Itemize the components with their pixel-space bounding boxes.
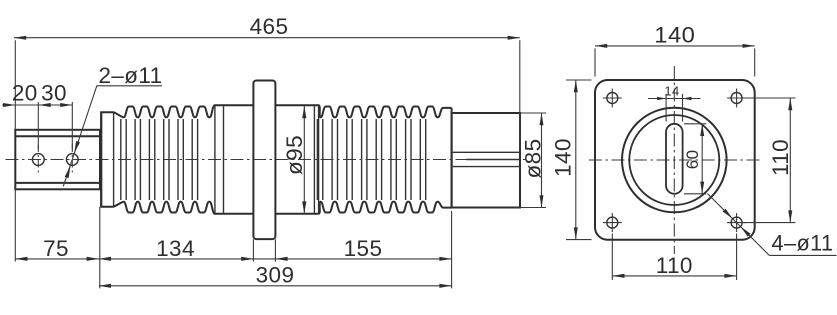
dim 110 bottom right extension [736,234,738,281]
dim 20 left outside arrow [3,103,15,107]
dimension 465 right arrow [508,36,520,40]
dim 60 top arrow [700,124,704,136]
dimension 465 line [14,37,520,39]
dim 60 top extension [684,123,706,125]
bolt hole bottom-right [731,217,742,228]
bottom dim line 75-134-155 [15,258,451,260]
dim 110 bottom left extension [611,234,613,281]
insulator right section bottom profile [319,202,452,214]
dim 110 right top arrow [788,98,792,110]
dim 155 right arrow [439,257,451,261]
o85 top extension [521,112,546,114]
bolt hole top-left centermark [603,97,622,99]
conductor rod top edge [453,151,520,153]
busbar bottom edge [15,182,100,184]
central circle outer [622,108,727,213]
hole H1 in plate [32,154,44,166]
dim 30 left arrow [39,103,51,107]
dim 155 left arrow [275,257,287,261]
dimension 465 right extension [519,40,521,150]
insulator end face [451,108,453,208]
bolt hole bottom-right centermark [727,222,746,224]
dim 60 bottom arrow [700,182,704,194]
bolt hole bottom-left centermark [603,222,622,224]
dim 134 right arrow [241,257,253,261]
dim 140 left top arrow [574,80,578,92]
dim 110 right bottom extension [743,222,796,224]
dim o85 top arrow [540,113,544,125]
svg-text:ø85: ø85 [521,139,546,179]
dim 14 left arrow [657,97,666,100]
label 4-o11 underline [769,254,836,256]
svg-text:309: 309 [256,263,295,288]
end cap cylinder [452,113,520,208]
svg-text:75: 75 [43,236,69,261]
dim o95 bottom arrow [302,201,306,213]
dim 110 right top extension [743,97,796,99]
key slot [666,124,683,194]
svg-text:ø95: ø95 [282,135,307,175]
svg-text:110: 110 [656,253,693,278]
dimension 309 line [99,285,452,287]
dimension 465 left extension [14,40,16,130]
dimension 20-30 line [2,104,72,106]
svg-text:465: 465 [250,14,289,39]
right collar bottom edge [275,213,318,215]
dim 75 left arrow [15,257,27,261]
extension flange left lower [252,239,254,261]
right collar top edge [275,104,318,106]
extension end face lower [451,211,453,289]
conductor rod bottom edge [453,166,520,168]
svg-text:110: 110 [768,139,793,176]
busbar top edge [15,135,100,137]
label 4-o11 upper arrow [723,209,733,219]
dim 134 left arrow [99,257,111,261]
dim 60 bottom extension [684,193,706,195]
flange horizontal centerline [589,159,761,161]
flange vertical centerline [673,66,675,254]
dim 75 right arrow [87,257,99,261]
svg-text:14: 14 [664,84,679,99]
extension line hole H1 [37,102,39,149]
dimension 60 line [701,124,703,194]
dim 140 top right arrow [743,44,755,48]
dim 14 right extension [682,94,684,122]
label 4-o11 lower arrow [741,227,751,237]
dim 140 top left arrow [595,44,607,48]
label 2-o11 leader [63,86,97,187]
dim 14 right arrow [683,97,692,100]
centerline of bushing axis [6,159,527,161]
left section shed silhouette lines [114,106,215,214]
bolt hole top-right centermark [727,97,746,99]
hole H2 vertical centermark [71,145,73,175]
bolt hole bottom-left [607,217,618,228]
svg-text:2–ø11: 2–ø11 [99,63,163,88]
flange plate square [595,80,755,240]
dim 110 bottom left arrow [612,274,624,278]
extension line hole H2 [71,102,73,149]
bolt hole top-left [607,93,618,104]
left collar seam line [223,106,225,213]
hole H1 vertical centermark [37,145,39,175]
extension plate right lower [99,207,101,289]
dim 309 right arrow [439,284,451,288]
svg-text:4–ø11: 4–ø11 [772,231,834,256]
extension flange right lower [274,239,276,261]
right section shed silhouette lines [317,105,425,214]
dim 140 left bottom extension [566,239,592,241]
dimension 140 top line [595,45,755,47]
dim 110 right bottom arrow [788,210,792,222]
dimension o85 line [541,113,543,208]
dimension 14 line [648,98,701,100]
dimension o95 line [303,106,305,214]
insulator left section top profile [101,105,253,207]
right collar seam line [313,106,315,213]
dim 30 right arrow [60,103,72,107]
label 2-o11 underline [97,85,163,87]
label 4-o11 leader [708,194,770,256]
o85 bottom extension [520,207,546,209]
dim 140 left top extension [566,79,592,81]
dim 140 top right extension [754,48,756,76]
bolt hole top-right [731,93,742,104]
mounting plate outline [15,130,100,190]
svg-text:30: 30 [41,81,67,106]
label 2-o11 upper arrow [74,141,80,153]
insulator left section bottom profile [101,112,253,214]
conductor rod middle line [466,159,520,161]
svg-text:20: 20 [12,81,38,106]
dimension 465 left arrow [14,36,26,40]
svg-text:60: 60 [683,150,702,170]
dim 140 left bottom arrow [574,227,578,239]
dim 309 left arrow [99,284,111,288]
dimension 140 left line [575,80,577,240]
dimension 110 bottom line [612,275,736,277]
svg-text:140: 140 [551,138,576,177]
dim o85 bottom arrow [540,195,544,207]
svg-text:155: 155 [344,236,383,261]
svg-text:140: 140 [654,23,695,48]
svg-text:134: 134 [156,236,195,261]
hole H2 in plate [66,154,78,166]
extension plate left lower [14,189,16,261]
dimension 110 right line [789,98,791,223]
central flange [253,81,275,240]
dim 14 left extension [665,94,667,122]
central circle inner [629,115,719,205]
insulator right section top profile [319,105,452,117]
dim 140 top left extension [594,48,596,76]
dim o95 top arrow [302,106,306,118]
dim 110 bottom right arrow [724,274,736,278]
label 2-o11 lower arrow [65,166,71,178]
